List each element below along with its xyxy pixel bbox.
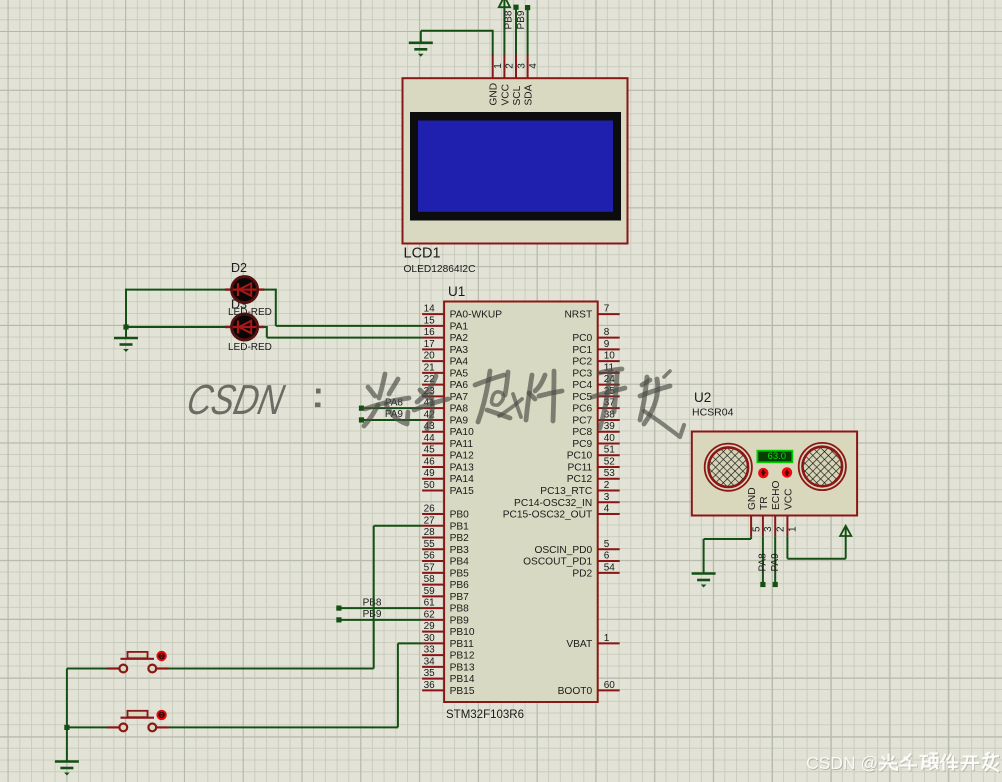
svg-text:PB10: PB10 [450,627,475,638]
svg-text:33: 33 [424,645,436,656]
svg-text:PB6: PB6 [450,580,470,591]
svg-text:16: 16 [424,327,436,338]
svg-text:27: 27 [424,515,436,526]
svg-text:SDA: SDA [524,84,535,105]
svg-text:20: 20 [424,351,436,362]
svg-text:35: 35 [424,668,436,679]
svg-text:PC10: PC10 [567,451,593,462]
svg-text:GND: GND [747,487,758,510]
svg-text:PC11: PC11 [567,462,592,473]
svg-text:BOOT0: BOOT0 [558,686,593,697]
svg-text:PB0: PB0 [450,510,470,521]
svg-text:63.0: 63.0 [768,451,787,462]
svg-text:9: 9 [604,339,610,350]
svg-text:51: 51 [604,445,616,456]
svg-text:PC12: PC12 [567,474,593,485]
svg-text:PB5: PB5 [450,568,470,579]
svg-text:PB1: PB1 [450,521,470,532]
svg-text:4: 4 [528,63,539,69]
svg-text:PC6: PC6 [572,404,592,415]
svg-text:44: 44 [424,433,436,444]
svg-text:PB2: PB2 [450,533,470,544]
svg-text:NRST: NRST [564,310,592,321]
svg-text:PC14-OSC32_IN: PC14-OSC32_IN [514,498,592,509]
svg-text:10: 10 [604,351,616,362]
svg-text:PA5: PA5 [450,368,469,379]
svg-text:LED-RED: LED-RED [228,307,272,318]
svg-text:15: 15 [424,315,436,326]
svg-text:46: 46 [424,456,436,467]
svg-text:PB9: PB9 [450,615,470,626]
svg-text:PC2: PC2 [572,357,592,368]
svg-text:62: 62 [424,609,436,620]
svg-text:8: 8 [604,327,610,338]
svg-text:PD2: PD2 [572,568,592,579]
svg-text:50: 50 [424,480,436,491]
svg-text:PB4: PB4 [450,557,470,568]
svg-text:36: 36 [424,680,436,691]
svg-text:PC13_RTC: PC13_RTC [540,486,592,497]
svg-text:OLED12864I2C: OLED12864I2C [404,264,476,275]
svg-text:ECHO: ECHO [771,480,782,510]
svg-text:PA11: PA11 [450,439,474,450]
svg-text:28: 28 [424,527,436,538]
svg-text:LCD1: LCD1 [404,246,441,262]
svg-text:LED-RED: LED-RED [228,342,272,353]
svg-text:55: 55 [424,539,436,550]
svg-text:2: 2 [604,480,610,491]
svg-text:PC4: PC4 [572,380,592,391]
svg-text:PB9: PB9 [516,10,527,29]
svg-text:U2: U2 [694,390,711,405]
svg-text:OSCOUT_PD1: OSCOUT_PD1 [523,557,592,568]
svg-text:3: 3 [763,526,774,532]
svg-text:PA0-WKUP: PA0-WKUP [450,310,503,321]
svg-text:1: 1 [493,63,504,69]
svg-text:30: 30 [424,633,436,644]
svg-text:PB9: PB9 [363,609,382,620]
svg-text:PA4: PA4 [450,357,469,368]
svg-text:26: 26 [424,504,436,515]
svg-text:39: 39 [604,421,616,432]
svg-text:CSDN @: CSDN @ [806,753,878,773]
svg-text:7: 7 [604,304,610,315]
svg-text:PB11: PB11 [450,639,474,650]
svg-text:VBAT: VBAT [566,639,592,650]
svg-text:PA3: PA3 [450,345,469,356]
svg-text:61: 61 [424,598,436,609]
svg-text:PA9: PA9 [770,553,781,572]
svg-text:56: 56 [424,551,436,562]
svg-text:PB3: PB3 [450,545,470,556]
svg-text:PC3: PC3 [572,368,592,379]
svg-text:VCC: VCC [783,488,794,510]
svg-text:PB14: PB14 [450,674,475,685]
svg-text:OSCIN_PD0: OSCIN_PD0 [534,545,592,556]
svg-text:SCL: SCL [512,85,523,105]
svg-text:VCC: VCC [500,84,511,106]
svg-text:53: 53 [604,468,616,479]
svg-text:PA13: PA13 [450,462,474,473]
svg-text:U1: U1 [448,284,465,299]
svg-text:4: 4 [604,504,610,515]
svg-text:PA8: PA8 [450,404,469,415]
svg-text:29: 29 [424,621,436,632]
svg-text:PA15: PA15 [450,486,474,497]
svg-text:3: 3 [604,492,610,503]
svg-text:40: 40 [604,433,616,444]
svg-text:5: 5 [604,539,610,550]
svg-text:PA6: PA6 [450,380,469,391]
svg-text:GND: GND [489,83,500,106]
svg-text:3: 3 [516,63,527,69]
svg-text:PA10: PA10 [450,427,474,438]
svg-text:PA1: PA1 [450,321,469,332]
svg-text:TR: TR [759,496,770,510]
svg-text:PA7: PA7 [450,392,469,403]
svg-text:PB8: PB8 [503,10,514,29]
svg-text:PB8: PB8 [363,597,382,608]
svg-text:PA8: PA8 [758,553,769,572]
svg-text:57: 57 [424,562,436,573]
svg-text:PB8: PB8 [450,604,470,615]
svg-text:58: 58 [424,574,436,585]
svg-text:PC0: PC0 [572,333,592,344]
svg-text:45: 45 [424,445,436,456]
svg-text:59: 59 [424,586,436,597]
svg-text:34: 34 [424,656,436,667]
svg-text:PA14: PA14 [450,474,474,485]
svg-text:21: 21 [424,362,436,373]
svg-text:PC7: PC7 [572,415,592,426]
svg-text:PB15: PB15 [450,686,475,697]
svg-text:14: 14 [424,304,436,315]
svg-text:CSDN: CSDN [183,377,288,424]
svg-text:PA9: PA9 [450,415,469,426]
svg-text:5: 5 [751,526,762,532]
svg-text:PC5: PC5 [572,392,592,403]
svg-text:PC1: PC1 [572,345,592,356]
svg-text:49: 49 [424,468,436,479]
svg-text:D2: D2 [231,261,247,275]
svg-text:PA2: PA2 [450,333,469,344]
svg-text:PC15-OSC32_OUT: PC15-OSC32_OUT [503,510,592,521]
svg-text:PA12: PA12 [450,451,474,462]
svg-text:17: 17 [424,339,436,350]
svg-text:2: 2 [505,63,516,69]
svg-text:1: 1 [604,633,610,644]
svg-text:PB7: PB7 [450,592,470,603]
svg-text:2: 2 [776,526,787,532]
svg-text:52: 52 [604,456,616,467]
svg-text:HCSR04: HCSR04 [692,407,734,419]
svg-text:PB13: PB13 [450,662,475,673]
svg-text:PC8: PC8 [572,427,592,438]
svg-text:PC9: PC9 [572,439,592,450]
svg-text:STM32F103R6: STM32F103R6 [446,709,524,721]
svg-text:54: 54 [604,562,616,573]
svg-text:6: 6 [604,551,610,562]
svg-text:1: 1 [788,526,799,532]
svg-text:60: 60 [604,680,616,691]
svg-text:PB12: PB12 [450,651,475,662]
